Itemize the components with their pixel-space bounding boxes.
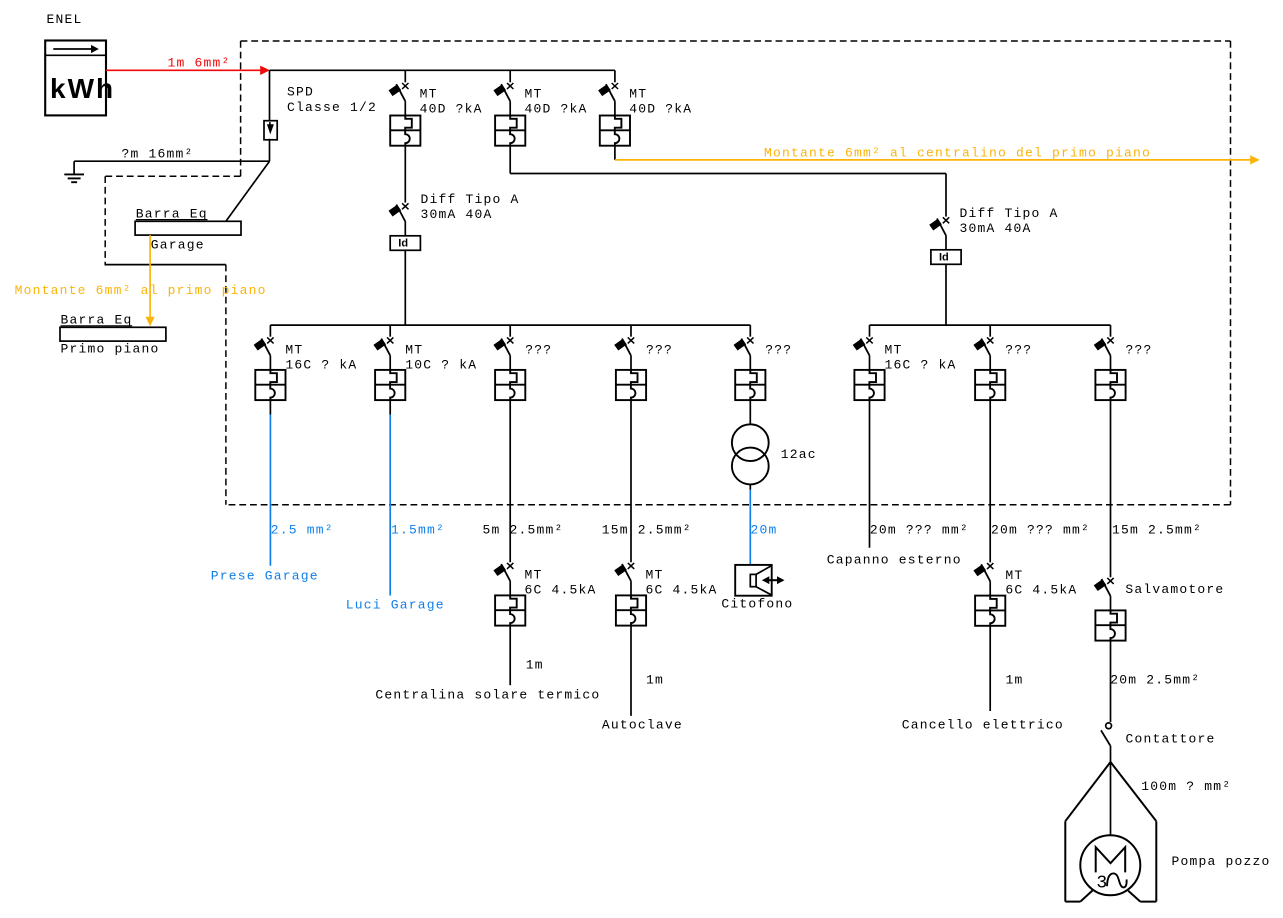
breaker Q12 MT 6C 4.5kA: [493, 563, 596, 626]
breaker Q1 MT 40D ?kA: [389, 83, 483, 146]
wire: Q11 to Q15, 15m 2.5mm2: [1111, 400, 1203, 577]
main panel dashed enclosure: [226, 41, 1231, 505]
wire: contactor to pump, 100m ? mm2: [1111, 746, 1232, 794]
transformer TR1 12ac: [732, 424, 817, 484]
svg-text:Centralina solare termico: Centralina solare termico: [375, 687, 600, 702]
wire: drop to breaker Q1: [404, 70, 406, 82]
wire: bus drop to Q6: [509, 325, 511, 337]
svg-text:15m 2.5mm²: 15m 2.5mm²: [602, 522, 692, 537]
svg-text:20m ??? mm²: 20m ??? mm²: [991, 522, 1090, 537]
svg-text:Contattore: Contattore: [1126, 732, 1216, 747]
wire: F1 to left bus: [404, 250, 406, 325]
kWh energy meter: [45, 41, 115, 116]
wire: Q12 to load, 1m: [510, 626, 544, 686]
wire: Q1 to Diff F1: [404, 146, 406, 203]
wire: Q13 to load, 1m: [631, 626, 664, 716]
wire: bus drop to Q9: [869, 325, 871, 337]
svg-text:1m: 1m: [526, 657, 544, 672]
breaker Q7 ???: [614, 337, 673, 400]
breaker Q13 MT 6C 4.5kA: [614, 563, 717, 626]
differential F2 Diff Tipo A 30mA 40A: [929, 206, 1058, 264]
svg-text:Classe 1/2: Classe 1/2: [287, 100, 377, 115]
wire: bus drop to Q10: [989, 325, 991, 337]
well outline Pompa pozzo: [1065, 762, 1270, 902]
wire: Q6 to Q12, 5m 2.5mm2: [483, 400, 564, 562]
wire: blue circuit Prese Garage 2.5mm2: [270, 415, 333, 566]
wire: red feed from meter, 1m 6mm2: [106, 56, 270, 75]
svg-text:40D ?kA: 40D ?kA: [525, 101, 588, 116]
svg-text:Autoclave: Autoclave: [602, 717, 683, 732]
wire: Q8 to transformer: [749, 400, 751, 424]
wire: orange Montante 6mm2 al centralino del primo piano: [615, 146, 1260, 165]
wire: Q2 feeder to Diff F2: [510, 146, 946, 217]
breaker Q14 MT 6C 4.5kA: [973, 563, 1077, 626]
motor M1 (M 3~): [1080, 835, 1140, 895]
wire: bus drop to Q5: [389, 325, 391, 337]
wire: Q14 to load, 1m: [990, 626, 1023, 711]
SPD surge arrester Classe 1/2: [264, 84, 377, 140]
svg-text:Montante 6mm² al primo piano: Montante 6mm² al primo piano: [15, 283, 267, 298]
svg-text:10C ? kA: 10C ? kA: [405, 357, 477, 372]
svg-text:6C 4.5kA: 6C 4.5kA: [1005, 583, 1077, 598]
wire: Q15 to contactor, 20m 2.5mm2: [1110, 641, 1200, 722]
svg-text:MT: MT: [629, 86, 647, 101]
wire: drop to breaker Q3: [614, 70, 616, 82]
busbar Barra Eq (Primo piano): [60, 313, 166, 357]
svg-text:30mA 40A: 30mA 40A: [960, 221, 1032, 236]
wire: Q3 stub: [614, 146, 616, 160]
svg-text:ENEL: ENEL: [47, 12, 83, 27]
wire: Q4 stub: [269, 400, 271, 414]
svg-text:???: ???: [1126, 342, 1153, 357]
svg-text:40D ?kA: 40D ?kA: [629, 101, 692, 116]
wire: Q10 to Q14, 20m ??? mm2: [990, 400, 1090, 562]
svg-text:30mA 40A: 30mA 40A: [421, 207, 493, 222]
svg-text:Montante 6mm² al centralino de: Montante 6mm² al centralino del primo pi…: [764, 146, 1151, 161]
breaker Q8 ???: [734, 337, 793, 400]
wire: blue circuit Luci Garage 1.5mm2: [390, 415, 445, 596]
svg-text:kWh: kWh: [50, 73, 115, 104]
svg-text:6C 4.5kA: 6C 4.5kA: [646, 583, 718, 598]
svg-text:Pompa pozzo: Pompa pozzo: [1172, 854, 1271, 869]
wire: orange riser Montante 6mm2 al primo piano: [15, 235, 267, 326]
svg-text:12ac: 12ac: [781, 447, 817, 462]
svg-text:Diff Tipo A: Diff Tipo A: [421, 192, 520, 207]
svg-text:MT: MT: [885, 342, 903, 357]
svg-text:???: ???: [646, 342, 673, 357]
wire: SPD drop: [269, 70, 271, 121]
garage annex dashed boundary: [105, 176, 240, 505]
wire: transformer stub: [749, 484, 751, 489]
wire: bus drop to Q4: [269, 325, 271, 337]
svg-text:1m 6mm²: 1m 6mm²: [168, 56, 231, 71]
svg-text:Id: Id: [398, 238, 408, 250]
svg-text:15m 2.5mm²: 15m 2.5mm²: [1112, 522, 1202, 537]
svg-text:MT: MT: [646, 568, 664, 583]
svg-text:100m ? mm²: 100m ? mm²: [1141, 779, 1231, 794]
svg-text:MT: MT: [1005, 568, 1023, 583]
svg-text:Id: Id: [939, 252, 949, 264]
svg-text:Garage: Garage: [151, 238, 205, 253]
breaker Q2 MT 40D ?kA: [493, 83, 587, 146]
wire: left distribution bus: [270, 324, 750, 326]
breaker Q9 MT 16C ? kA: [853, 337, 957, 400]
svg-text:MT: MT: [525, 568, 543, 583]
wire: Q7 to Q13, 15m 2.5mm2: [602, 400, 692, 562]
svg-text:Diff Tipo A: Diff Tipo A: [960, 206, 1059, 221]
svg-text:1m: 1m: [646, 673, 664, 688]
svg-text:20m 2.5mm²: 20m 2.5mm²: [1110, 673, 1200, 688]
svg-text:20m: 20m: [751, 522, 778, 537]
breaker Q6 ???: [493, 337, 552, 400]
svg-text:MT: MT: [420, 86, 438, 101]
svg-text:???: ???: [1005, 342, 1032, 357]
speaker/intercom Citofono: [721, 565, 793, 612]
svg-text:?m 16mm²: ?m 16mm²: [122, 146, 194, 161]
breaker Q5 MT 10C ? kA: [373, 337, 477, 400]
wire: bus drop to Q8: [749, 325, 751, 337]
svg-text:16C ? kA: 16C ? kA: [885, 357, 957, 372]
svg-text:Capanno esterno: Capanno esterno: [827, 553, 962, 568]
breaker Q15 Salvamotore: [1094, 578, 1225, 641]
wire: Q9 circuit 20m ??? mm2: [870, 400, 969, 548]
svg-text:MT: MT: [525, 86, 543, 101]
svg-text:???: ???: [525, 342, 552, 357]
svg-text:16C ? kA: 16C ? kA: [285, 357, 357, 372]
svg-text:SPD: SPD: [287, 84, 314, 99]
busbar Barra Eq (Garage): [135, 207, 241, 253]
breaker Q3 MT 40D ?kA: [598, 83, 692, 146]
svg-text:MT: MT: [405, 342, 423, 357]
ground symbol: [64, 174, 84, 182]
svg-text:5m 2.5mm²: 5m 2.5mm²: [483, 522, 564, 537]
svg-text:40D ?kA: 40D ?kA: [420, 101, 483, 116]
wire: SPD to earth tee: [269, 139, 271, 161]
wire: bus drop to Q7: [630, 325, 632, 337]
svg-text:3: 3: [1096, 874, 1107, 894]
svg-text:Cancello elettrico: Cancello elettrico: [902, 717, 1064, 732]
differential F1 Diff Tipo A 30mA 40A: [389, 192, 520, 250]
wire: bus drop to Q11: [1110, 325, 1112, 337]
wire: main top bus: [270, 69, 615, 71]
wire: drop to breaker Q2: [509, 70, 511, 82]
contactor KM1 Contattore: [1101, 723, 1216, 747]
svg-text:Prese Garage: Prese Garage: [211, 569, 319, 584]
svg-text:???: ???: [765, 342, 792, 357]
svg-text:Salvamotore: Salvamotore: [1125, 582, 1224, 597]
wire: blue bell circuit 20m: [750, 490, 777, 565]
svg-text:20m ??? mm²: 20m ??? mm²: [870, 522, 969, 537]
breaker Q10 ???: [973, 337, 1032, 400]
wire: diagonal to Barra Eq Garage: [226, 161, 270, 221]
wire: F2 to right bus: [945, 264, 947, 325]
svg-text:MT: MT: [285, 342, 303, 357]
svg-text:Citofono: Citofono: [721, 596, 793, 611]
svg-text:Primo piano: Primo piano: [61, 342, 160, 357]
svg-text:2.5 mm²: 2.5 mm²: [271, 522, 334, 537]
wire: earth conductor ?m 16mm2: [74, 146, 269, 174]
solid boundary segment: [105, 264, 226, 266]
svg-text:6C 4.5kA: 6C 4.5kA: [525, 583, 597, 598]
svg-text:1.5mm²: 1.5mm²: [391, 522, 445, 537]
breaker Q4 MT 16C ? kA: [254, 337, 358, 400]
svg-text:1m: 1m: [1006, 673, 1024, 688]
wire: right distribution bus: [870, 324, 1111, 326]
breaker Q11 ???: [1094, 337, 1153, 400]
wire: Q5 stub: [389, 400, 391, 414]
svg-text:Luci Garage: Luci Garage: [346, 598, 445, 613]
